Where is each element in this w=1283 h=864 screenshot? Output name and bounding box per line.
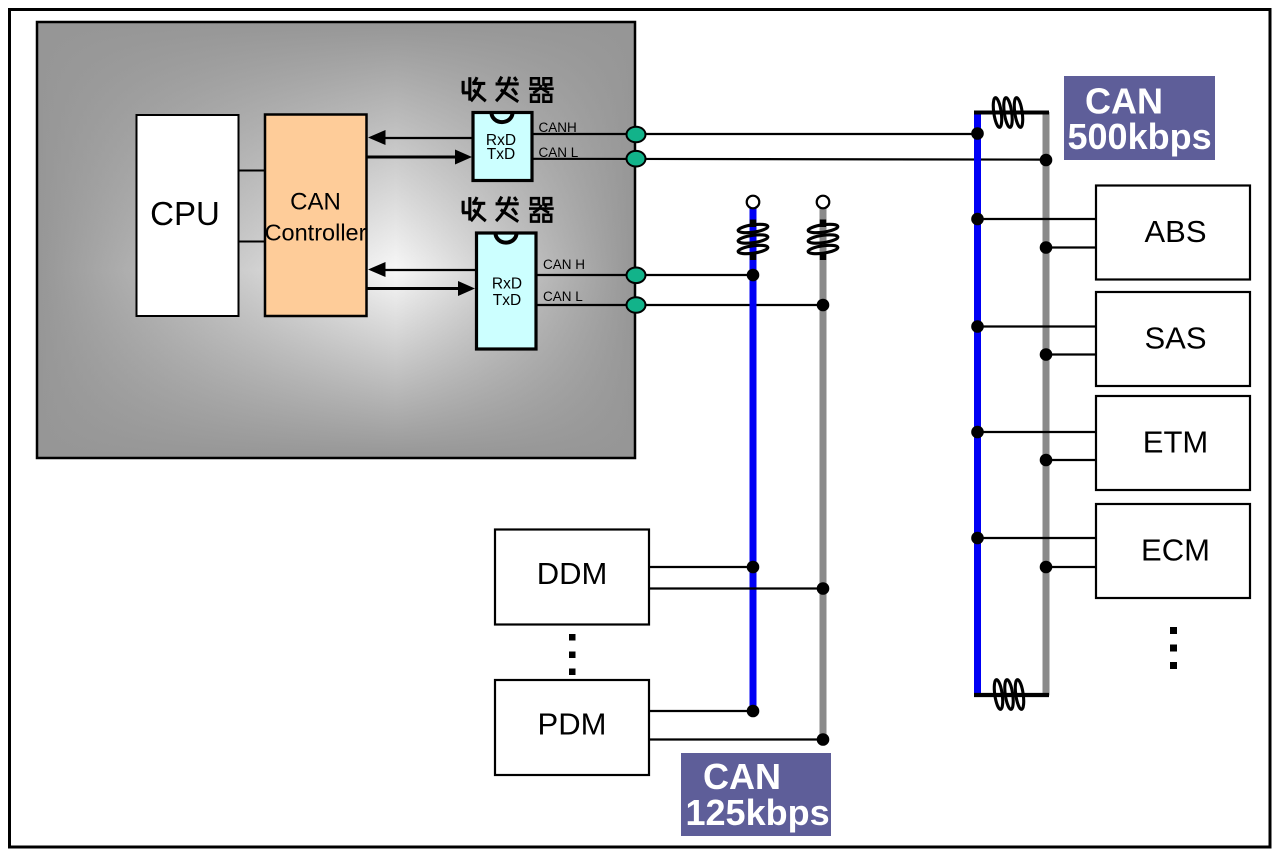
svg-text:SAS: SAS — [1144, 321, 1206, 356]
svg-text:ECM: ECM — [1141, 533, 1210, 568]
svg-text:500kbps: 500kbps — [1068, 116, 1212, 157]
svg-text:125kbps: 125kbps — [686, 792, 830, 833]
svg-text:Controller: Controller — [265, 220, 367, 246]
svg-text:PDM: PDM — [538, 707, 607, 742]
svg-text:CPU: CPU — [150, 195, 220, 232]
svg-text:ETM: ETM — [1143, 425, 1208, 460]
svg-text:DDM: DDM — [537, 556, 608, 591]
svg-text:ABS: ABS — [1144, 214, 1206, 249]
svg-text:TxD: TxD — [487, 146, 515, 163]
svg-text:TxD: TxD — [493, 292, 521, 309]
svg-text:CAN L: CAN L — [543, 289, 583, 304]
svg-text:CAN H: CAN H — [543, 257, 585, 272]
svg-text:CAN: CAN — [703, 756, 781, 797]
svg-text:CAN: CAN — [290, 189, 341, 216]
svg-text:CANH: CANH — [539, 120, 577, 135]
svg-text:RxD: RxD — [492, 276, 522, 293]
svg-text:CAN L: CAN L — [539, 145, 579, 160]
